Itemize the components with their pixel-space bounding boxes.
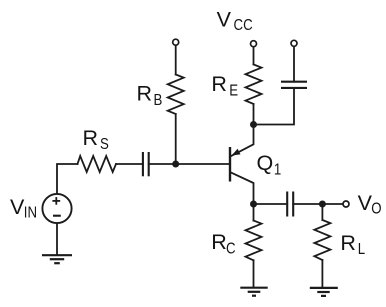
svg-text:V: V	[358, 191, 373, 215]
svg-text:L: L	[358, 241, 365, 258]
svg-text:R: R	[211, 72, 227, 96]
svg-text:V: V	[10, 195, 25, 219]
svg-text:R: R	[340, 231, 356, 255]
svg-text:Q: Q	[257, 151, 274, 175]
svg-text:C: C	[226, 241, 236, 258]
svg-text:R: R	[137, 82, 153, 106]
svg-text:V: V	[217, 8, 232, 32]
svg-text:1: 1	[274, 162, 281, 179]
svg-text:O: O	[371, 201, 381, 218]
svg-text:S: S	[100, 136, 109, 153]
svg-text:IN: IN	[24, 205, 37, 222]
svg-text:R: R	[211, 230, 227, 254]
svg-text:B: B	[154, 92, 163, 109]
svg-text:R: R	[83, 126, 99, 150]
svg-text:CC: CC	[234, 17, 253, 34]
svg-text:E: E	[229, 82, 238, 99]
